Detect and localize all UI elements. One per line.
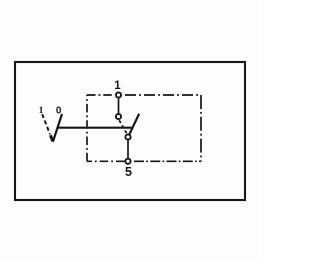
switch housing dashed outline (bottom edge, right of terminal 5) xyxy=(134,160,201,162)
svg-text:0: 0 xyxy=(56,105,62,116)
switch blade position 0 (open) xyxy=(129,114,139,135)
switch housing dashed outline (top edge, left of terminal 1) xyxy=(87,94,115,96)
lever arm position I (dashed) xyxy=(42,114,50,134)
wire pivot contact to terminal 5 xyxy=(127,137,129,161)
actuator link wire xyxy=(57,127,132,129)
svg-text:5: 5 xyxy=(125,165,132,179)
wire terminal 1 to upper fixed contact xyxy=(118,95,120,117)
svg-text:1: 1 xyxy=(114,80,121,92)
svg-text:1: 1 xyxy=(39,106,44,116)
upper fixed contact circle xyxy=(116,114,121,119)
terminal circle 1 xyxy=(116,92,121,97)
outer border frame of schematic xyxy=(15,62,245,200)
lever arm position 0 (solid) xyxy=(53,114,62,142)
switch housing dashed outline (top edge, right of terminal 1) xyxy=(125,94,201,96)
switch housing dashed outline (bottom edge, left of terminal 5) xyxy=(87,160,125,162)
switch housing dashed outline (right edge) xyxy=(200,95,202,161)
terminal circle 5 xyxy=(125,159,130,164)
switch housing dashed outline (left edge) xyxy=(86,95,88,161)
lever apex wedge xyxy=(50,135,52,141)
pivot contact circle xyxy=(125,134,130,139)
switch blade alternate position I (dashed) xyxy=(119,120,127,133)
